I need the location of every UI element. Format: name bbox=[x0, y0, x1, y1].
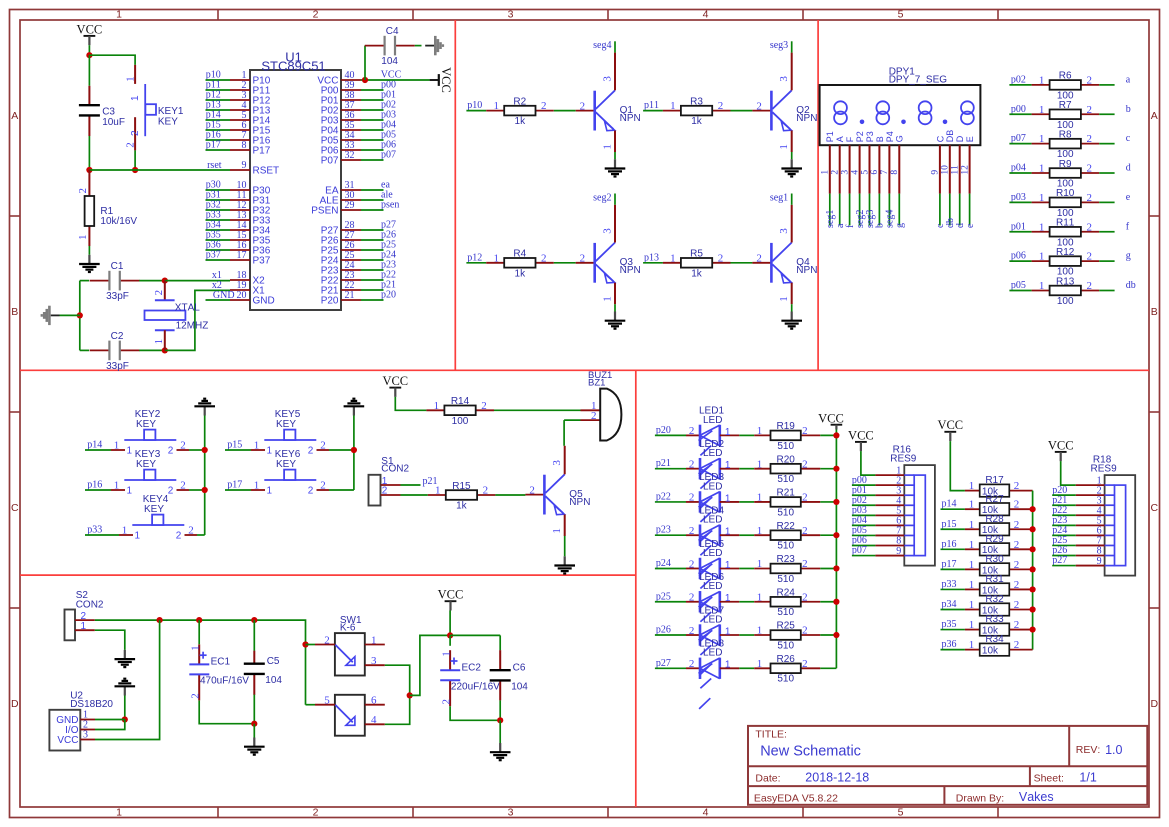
svg-text:1: 1 bbox=[670, 100, 676, 112]
svg-text:1: 1 bbox=[969, 639, 975, 651]
pin 39 (P00) of U1 bbox=[321, 80, 361, 96]
LED LED3 bbox=[686, 472, 739, 542]
svg-text:2: 2 bbox=[689, 558, 695, 570]
resistor network R18 bbox=[1076, 455, 1136, 576]
wire bbox=[1099, 201, 1114, 203]
svg-text:R26: R26 bbox=[777, 654, 796, 665]
IC U2 DS18B20 bbox=[49, 690, 113, 750]
svg-text:R13: R13 bbox=[1056, 276, 1075, 287]
junction bbox=[1030, 526, 1036, 532]
wire bbox=[941, 528, 965, 530]
svg-text:g: g bbox=[895, 223, 906, 228]
transistor Q1 bbox=[576, 53, 641, 152]
svg-text:1: 1 bbox=[81, 621, 87, 632]
svg-text:1: 1 bbox=[778, 296, 790, 302]
wire bbox=[95, 719, 125, 721]
svg-text:1: 1 bbox=[551, 528, 563, 534]
wire bbox=[1009, 201, 1031, 203]
svg-text:p27: p27 bbox=[656, 658, 671, 669]
wire (LED VCC rail) bbox=[835, 430, 837, 669]
svg-text:1: 1 bbox=[135, 531, 141, 542]
wire bbox=[852, 524, 876, 526]
svg-text:p21: p21 bbox=[656, 458, 671, 469]
svg-text:1: 1 bbox=[77, 235, 89, 241]
svg-text:p15: p15 bbox=[227, 440, 242, 451]
svg-text:1: 1 bbox=[116, 9, 122, 21]
pin 3 (P12) of U1 bbox=[230, 90, 271, 106]
svg-text:Vakes: Vakes bbox=[1019, 790, 1054, 804]
svg-text:1: 1 bbox=[969, 519, 975, 531]
svg-text:KEY: KEY bbox=[276, 419, 296, 430]
wire bbox=[739, 501, 754, 503]
svg-text:P07: P07 bbox=[321, 156, 339, 167]
svg-text:2: 2 bbox=[1086, 280, 1092, 292]
pin 6 of SW1 bbox=[365, 704, 385, 706]
wire bbox=[941, 649, 965, 651]
svg-text:1: 1 bbox=[127, 486, 133, 497]
transistor Q2 bbox=[752, 53, 817, 152]
connector S1 CON2 bbox=[369, 456, 410, 506]
svg-text:C6: C6 bbox=[513, 663, 526, 674]
svg-text:9: 9 bbox=[931, 170, 941, 175]
svg-text:2: 2 bbox=[1086, 221, 1092, 233]
svg-text:3: 3 bbox=[778, 228, 790, 234]
pin 40 (VCC) of U1 bbox=[317, 70, 361, 86]
wire bbox=[1099, 113, 1114, 115]
resistor R4 bbox=[486, 249, 554, 280]
wire bbox=[364, 46, 366, 80]
wire bbox=[206, 89, 231, 91]
pin 12 (P32) of U1 bbox=[230, 200, 271, 216]
svg-text:XTAL: XTAL bbox=[175, 302, 200, 313]
svg-text:RES9: RES9 bbox=[1091, 463, 1118, 474]
pin 5 (P14) of U1 bbox=[230, 110, 271, 126]
ground bbox=[41, 306, 60, 325]
wire bbox=[361, 299, 384, 301]
svg-text:1: 1 bbox=[127, 446, 133, 457]
svg-text:1: 1 bbox=[1039, 221, 1045, 233]
svg-text:P1: P1 bbox=[825, 131, 835, 142]
svg-text:2: 2 bbox=[125, 142, 137, 148]
wire bbox=[1099, 289, 1114, 291]
ground bbox=[490, 743, 511, 760]
svg-text:3: 3 bbox=[371, 655, 377, 667]
svg-text:R30: R30 bbox=[985, 554, 1004, 565]
wire bbox=[206, 229, 231, 231]
svg-text:R24: R24 bbox=[777, 587, 796, 598]
transistor Q5 bbox=[525, 446, 590, 536]
svg-text:LED: LED bbox=[703, 581, 722, 592]
junction bbox=[302, 641, 308, 647]
LED LED1 bbox=[686, 406, 739, 476]
LED LED7 bbox=[686, 605, 739, 675]
svg-text:p01: p01 bbox=[1011, 221, 1026, 232]
svg-text:P3: P3 bbox=[865, 131, 875, 142]
transistor Q3 bbox=[576, 205, 641, 304]
svg-text:CON2: CON2 bbox=[381, 463, 409, 474]
svg-text:2: 2 bbox=[188, 525, 194, 537]
resistor R2 bbox=[486, 96, 554, 127]
wire bbox=[206, 199, 231, 201]
svg-text:R14: R14 bbox=[451, 396, 470, 407]
wire bbox=[450, 706, 500, 720]
transistor Q4 bbox=[752, 205, 817, 304]
wire bbox=[564, 536, 566, 556]
junction bbox=[122, 716, 128, 722]
svg-text:p20: p20 bbox=[381, 290, 396, 301]
wire bbox=[189, 489, 205, 491]
svg-text:R10: R10 bbox=[1056, 188, 1075, 199]
svg-text:p13: p13 bbox=[644, 252, 659, 263]
pin 4 (P13) of U1 bbox=[230, 100, 271, 116]
svg-text:2: 2 bbox=[1014, 480, 1020, 492]
svg-text:VCC: VCC bbox=[57, 735, 78, 746]
svg-text:p03: p03 bbox=[1011, 192, 1026, 203]
svg-text:2: 2 bbox=[1086, 251, 1092, 263]
key KEY5 bbox=[251, 409, 329, 457]
svg-text:2: 2 bbox=[802, 625, 808, 637]
wire bbox=[739, 601, 754, 603]
svg-text:seg3: seg3 bbox=[770, 40, 788, 51]
resistor R26 bbox=[754, 654, 820, 685]
wire (keys left rail) bbox=[204, 416, 206, 536]
svg-text:510: 510 bbox=[777, 507, 794, 518]
svg-text:1: 1 bbox=[130, 95, 141, 101]
pin 31 (EA) of U1 bbox=[325, 180, 361, 196]
pin 22 (P21) of U1 bbox=[321, 280, 361, 296]
wire bbox=[949, 194, 951, 226]
svg-text:3: 3 bbox=[602, 76, 614, 82]
svg-text:P20: P20 bbox=[321, 296, 339, 307]
wire bbox=[820, 501, 836, 503]
wire bbox=[852, 555, 876, 557]
power VCC bbox=[382, 374, 408, 397]
svg-text:g: g bbox=[1126, 251, 1131, 262]
wire bbox=[253, 724, 255, 738]
svg-text:12: 12 bbox=[960, 165, 970, 175]
svg-text:VCC: VCC bbox=[818, 411, 844, 425]
svg-text:2: 2 bbox=[1014, 519, 1020, 531]
svg-text:p07: p07 bbox=[852, 545, 867, 556]
svg-text:1: 1 bbox=[778, 144, 790, 150]
svg-text:R19: R19 bbox=[777, 421, 796, 432]
wire bbox=[852, 545, 876, 547]
wire bbox=[739, 468, 754, 470]
wire bbox=[1099, 260, 1114, 262]
wire bbox=[820, 667, 836, 669]
junction bbox=[833, 532, 839, 538]
wire bbox=[80, 349, 89, 351]
svg-text:510: 510 bbox=[777, 474, 794, 485]
svg-text:R6: R6 bbox=[1059, 71, 1072, 82]
wire bbox=[839, 194, 841, 226]
svg-text:2: 2 bbox=[483, 485, 489, 497]
wire bbox=[739, 634, 754, 636]
svg-text:100: 100 bbox=[452, 416, 469, 427]
svg-text:p16: p16 bbox=[942, 539, 957, 550]
svg-text:2: 2 bbox=[1014, 559, 1020, 571]
svg-text:1: 1 bbox=[602, 144, 614, 150]
resistor R8 bbox=[1032, 129, 1100, 160]
svg-text:R28: R28 bbox=[985, 514, 1004, 525]
junction bbox=[132, 167, 138, 173]
wire bbox=[852, 534, 876, 536]
svg-text:R34: R34 bbox=[985, 634, 1004, 645]
svg-text:seg4: seg4 bbox=[593, 40, 611, 51]
svg-text:1k: 1k bbox=[456, 501, 468, 512]
wire bbox=[494, 409, 581, 411]
wire bbox=[939, 194, 941, 226]
pin 17 (P37) of U1 bbox=[230, 250, 271, 266]
svg-text:Date:: Date: bbox=[755, 773, 780, 785]
svg-text:9: 9 bbox=[242, 160, 247, 171]
resistor R12 bbox=[1032, 247, 1100, 278]
resistor R14 bbox=[426, 396, 494, 427]
svg-text:2: 2 bbox=[802, 558, 808, 570]
wire bbox=[361, 109, 384, 111]
junction bbox=[1030, 506, 1036, 512]
wire bbox=[95, 620, 160, 739]
wire bbox=[1009, 172, 1031, 174]
svg-text:Drawn By:: Drawn By: bbox=[956, 793, 1004, 805]
svg-text:1: 1 bbox=[189, 645, 201, 651]
svg-text:C5: C5 bbox=[267, 656, 280, 667]
wire bbox=[199, 701, 254, 724]
power VCC (right of U1) bbox=[430, 67, 453, 93]
pin 9 (RSET) of U1 bbox=[230, 160, 279, 176]
svg-text:220uF/16V: 220uF/16V bbox=[451, 682, 500, 693]
svg-text:p04: p04 bbox=[1011, 163, 1026, 174]
svg-text:seg2: seg2 bbox=[593, 192, 611, 203]
svg-text:1: 1 bbox=[116, 806, 122, 818]
svg-text:NPN: NPN bbox=[796, 113, 817, 124]
svg-text:R15: R15 bbox=[452, 481, 471, 492]
junction bbox=[497, 717, 503, 723]
wire bbox=[614, 41, 616, 52]
ground bbox=[605, 312, 626, 329]
pin 24 (P23) of U1 bbox=[321, 260, 361, 276]
wire bbox=[554, 110, 576, 112]
svg-text:1: 1 bbox=[725, 626, 731, 637]
svg-text:5: 5 bbox=[324, 695, 330, 707]
wire bbox=[410, 635, 450, 695]
svg-text:R20: R20 bbox=[777, 454, 796, 465]
wire bbox=[655, 501, 686, 503]
svg-text:P37: P37 bbox=[253, 256, 271, 267]
svg-text:2: 2 bbox=[1014, 619, 1020, 631]
wire bbox=[655, 468, 686, 470]
junction bbox=[251, 721, 257, 727]
junction bbox=[1030, 586, 1036, 592]
ground bbox=[194, 399, 215, 416]
svg-text:510: 510 bbox=[777, 640, 794, 651]
svg-text:2: 2 bbox=[802, 425, 808, 437]
wire bbox=[401, 484, 421, 486]
svg-text:C1: C1 bbox=[111, 261, 124, 272]
svg-text:KEY: KEY bbox=[158, 116, 178, 127]
svg-text:1: 1 bbox=[725, 427, 731, 438]
svg-text:1: 1 bbox=[725, 660, 731, 671]
svg-text:R25: R25 bbox=[777, 621, 796, 632]
wire bbox=[361, 289, 384, 291]
svg-text:1: 1 bbox=[969, 619, 975, 631]
resistor R23 bbox=[754, 554, 820, 585]
capacitor C3 bbox=[79, 86, 125, 136]
wire bbox=[499, 700, 501, 720]
wire bbox=[206, 299, 231, 301]
svg-text:p23: p23 bbox=[656, 525, 671, 536]
wire bbox=[85, 534, 119, 536]
pin 2 of S2 bbox=[75, 619, 95, 621]
svg-text:510: 510 bbox=[777, 607, 794, 618]
wire bbox=[361, 119, 384, 121]
pin 21 (P20) of U1 bbox=[321, 290, 361, 306]
svg-text:NPN: NPN bbox=[569, 497, 590, 508]
svg-text:2: 2 bbox=[689, 658, 695, 670]
svg-text:DPY_7_SEG: DPY_7_SEG bbox=[889, 75, 948, 86]
resistor R34 bbox=[965, 634, 1033, 656]
svg-text:510: 510 bbox=[777, 441, 794, 452]
svg-text:8: 8 bbox=[890, 170, 900, 175]
svg-text:2: 2 bbox=[313, 9, 319, 21]
svg-text:1: 1 bbox=[725, 593, 731, 604]
svg-text:2: 2 bbox=[580, 100, 586, 112]
svg-text:c: c bbox=[1126, 133, 1131, 144]
wire bbox=[206, 249, 231, 251]
svg-text:32: 32 bbox=[345, 150, 355, 161]
svg-text:1: 1 bbox=[821, 170, 831, 175]
ground bbox=[781, 159, 802, 176]
svg-text:psen: psen bbox=[381, 200, 399, 211]
wire bbox=[1009, 143, 1031, 145]
wire bbox=[941, 609, 965, 611]
svg-text:2: 2 bbox=[320, 480, 326, 492]
svg-text:1k: 1k bbox=[515, 116, 527, 127]
svg-text:p27: p27 bbox=[1052, 555, 1067, 566]
svg-text:A: A bbox=[11, 110, 18, 122]
capacitor C2 bbox=[90, 331, 140, 372]
svg-text:VCC: VCC bbox=[438, 588, 464, 602]
svg-text:10k/16V: 10k/16V bbox=[100, 216, 137, 227]
svg-text:3: 3 bbox=[840, 170, 850, 175]
svg-text:LED: LED bbox=[703, 614, 722, 625]
pin 14 (P34) of U1 bbox=[230, 220, 271, 236]
pin 3 of SW1 bbox=[365, 664, 385, 666]
wire bbox=[1052, 565, 1076, 567]
wire bbox=[415, 45, 422, 47]
title block bbox=[748, 726, 1147, 805]
svg-text:2: 2 bbox=[1014, 539, 1020, 551]
svg-text:29: 29 bbox=[345, 200, 355, 211]
wire bbox=[655, 601, 686, 603]
svg-text:1: 1 bbox=[969, 599, 975, 611]
wire bbox=[1052, 524, 1076, 526]
svg-text:2: 2 bbox=[689, 525, 695, 537]
svg-text:1k: 1k bbox=[691, 116, 703, 127]
svg-text:p16: p16 bbox=[87, 480, 102, 491]
svg-text:510: 510 bbox=[777, 674, 794, 685]
svg-text:2: 2 bbox=[756, 100, 762, 112]
svg-text:1/1: 1/1 bbox=[1079, 771, 1096, 785]
svg-text:PSEN: PSEN bbox=[311, 206, 338, 217]
resistor R5 bbox=[663, 249, 731, 280]
svg-text:104: 104 bbox=[265, 675, 282, 686]
LED LED6 bbox=[686, 572, 739, 642]
svg-text:p07: p07 bbox=[381, 150, 396, 161]
wire bbox=[134, 150, 136, 170]
svg-text:1: 1 bbox=[254, 480, 260, 492]
pin 6 (B) of DPY1 bbox=[870, 136, 885, 193]
svg-text:p20: p20 bbox=[656, 425, 671, 436]
pin 19 (X1) of U1 bbox=[230, 280, 265, 296]
svg-text:RSET: RSET bbox=[253, 166, 280, 177]
wire bbox=[859, 194, 861, 226]
wire bbox=[361, 79, 430, 81]
svg-text:1: 1 bbox=[1039, 133, 1045, 145]
svg-text:VCC: VCC bbox=[1048, 438, 1074, 452]
pin 35 (P04) of U1 bbox=[321, 120, 361, 136]
resistor R3 bbox=[663, 96, 731, 127]
svg-text:R5: R5 bbox=[690, 249, 703, 260]
svg-text:2: 2 bbox=[1086, 163, 1092, 175]
svg-text:1: 1 bbox=[670, 252, 676, 264]
wire bbox=[385, 665, 410, 695]
LED LED2 bbox=[686, 439, 739, 509]
svg-text:510: 510 bbox=[777, 574, 794, 585]
svg-text:P2: P2 bbox=[855, 131, 865, 142]
svg-text:RES9: RES9 bbox=[890, 453, 917, 464]
junction bbox=[162, 278, 168, 284]
pin 2 of SW1 bbox=[315, 644, 335, 646]
wire bbox=[820, 601, 836, 603]
pin 34 (P05) of U1 bbox=[321, 130, 361, 146]
junction bbox=[202, 447, 208, 453]
power VCC bbox=[1048, 438, 1074, 461]
pin 4 (P2) of DPY1 bbox=[850, 131, 865, 193]
wire bbox=[206, 149, 231, 151]
wire bbox=[643, 262, 663, 264]
pin 8 (G) of DPY1 bbox=[890, 135, 905, 193]
svg-text:p10: p10 bbox=[467, 100, 482, 111]
pin 36 (P03) of U1 bbox=[321, 110, 361, 126]
capacitor C4 bbox=[365, 26, 415, 67]
wire bbox=[1052, 494, 1076, 496]
svg-text:R8: R8 bbox=[1059, 129, 1072, 140]
svg-text:NPN: NPN bbox=[620, 265, 641, 276]
power VCC (LED rail) bbox=[818, 411, 844, 429]
svg-text:9: 9 bbox=[1097, 556, 1102, 567]
svg-text:p17: p17 bbox=[206, 140, 221, 151]
svg-text:R2: R2 bbox=[513, 96, 526, 107]
capacitor EC1 bbox=[189, 644, 249, 700]
wire bbox=[739, 434, 754, 436]
svg-text:R29: R29 bbox=[985, 534, 1004, 545]
wire bbox=[449, 635, 451, 645]
wire bbox=[361, 149, 384, 151]
ground bbox=[79, 255, 100, 272]
pin 4 of SW1 bbox=[365, 723, 385, 725]
wire bbox=[1009, 260, 1031, 262]
wire (10k rail) bbox=[1032, 491, 1034, 650]
wire bbox=[88, 45, 90, 55]
svg-text:B: B bbox=[875, 136, 885, 142]
pin 20 (GND) of U1 bbox=[230, 290, 275, 306]
wire bbox=[361, 99, 384, 101]
wire bbox=[554, 262, 576, 264]
wire bbox=[791, 41, 793, 52]
key KEY1 bbox=[125, 65, 184, 150]
wire bbox=[85, 449, 111, 451]
